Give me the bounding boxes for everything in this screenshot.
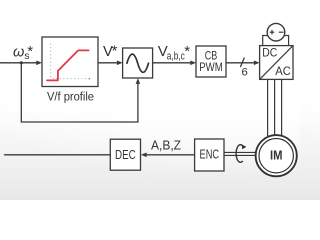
arrowhead into DEC [141, 153, 147, 158]
wire CB PWM to DC/AC [226, 62, 256, 64]
motor IM inner circle [259, 139, 293, 173]
svg-text:*: * [27, 43, 33, 60]
svg-text:V/f profile: V/f profile [47, 90, 94, 104]
motor IM outer circle [256, 135, 297, 176]
wire DEC to left edge [5, 154, 111, 156]
minus sign [279, 31, 284, 33]
svg-text:ENC: ENC [200, 147, 220, 161]
V/f graph dotted vertical axis [50, 44, 52, 80]
svg-text:DEC: DEC [115, 148, 136, 162]
wire V/f to sine [98, 62, 119, 64]
svg-text:*: * [184, 43, 190, 60]
block DEC [110, 139, 140, 170]
svg-text:AC: AC [275, 64, 291, 78]
svg-text:6: 6 [242, 67, 248, 79]
block sine generator [123, 48, 153, 78]
plus sign [270, 31, 275, 33]
DC source circle [267, 23, 285, 41]
svg-text:A,B,Z: A,B,Z [151, 137, 181, 152]
V/f graph dotted horizontal axis [53, 78, 90, 80]
arrowhead into DC/AC [254, 61, 260, 66]
block CB PWM [196, 46, 226, 77]
wire input omega [0, 62, 38, 64]
block DC/AC inverter [260, 46, 293, 80]
svg-text:DC: DC [262, 46, 277, 60]
V/f axis end dot [88, 78, 90, 80]
svg-text:IM: IM [270, 147, 283, 162]
svg-text:PWM: PWM [199, 60, 223, 74]
junction dot node [20, 61, 23, 64]
rotation arrow [236, 145, 243, 163]
svg-text:a,b,c: a,b,c [167, 51, 185, 63]
svg-text:*: * [112, 43, 118, 60]
block V/f profile [42, 37, 98, 87]
arrowhead into sine block bottom [136, 78, 141, 84]
slash bus mark [240, 58, 244, 68]
arrowhead into sine block left [117, 61, 123, 66]
V/f red curve [47, 50, 89, 80]
shaft lines [224, 151, 258, 153]
wire branch to sine generator [21, 63, 138, 122]
sine wave glyph [127, 54, 149, 72]
arrowhead into CB PWM [190, 61, 196, 66]
arrowhead into V/f block [36, 61, 42, 66]
DC link bracket [263, 36, 289, 46]
rotation arrowhead [242, 145, 247, 150]
three-phase wires to motor [268, 79, 282, 140]
inverter diagonal [260, 46, 293, 80]
block ENC [195, 139, 224, 171]
wire sine to CB PWM [153, 62, 192, 64]
wire ENC to DEC [146, 154, 195, 156]
svg-text:ω: ω [13, 45, 24, 61]
